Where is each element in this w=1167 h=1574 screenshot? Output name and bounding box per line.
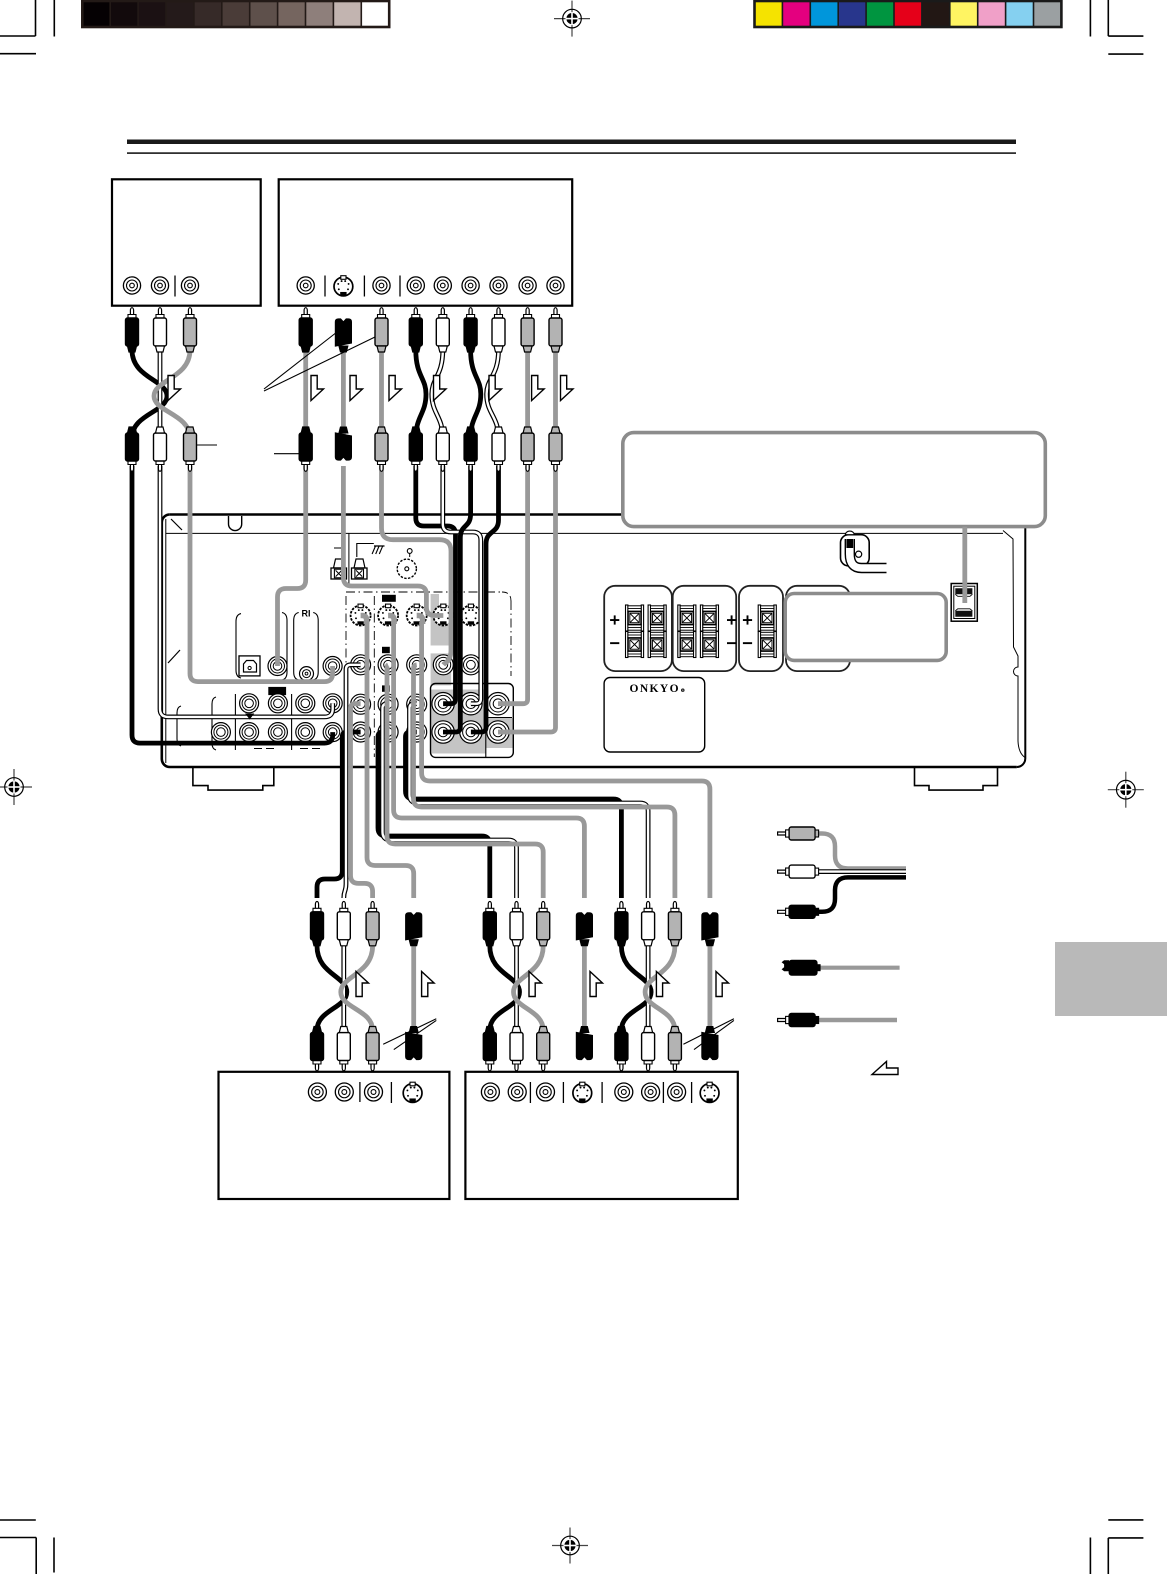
svg-text:RI: RI [302,609,311,619]
svg-text:R: R [682,688,684,692]
svg-text:ONKYO: ONKYO [630,683,680,695]
